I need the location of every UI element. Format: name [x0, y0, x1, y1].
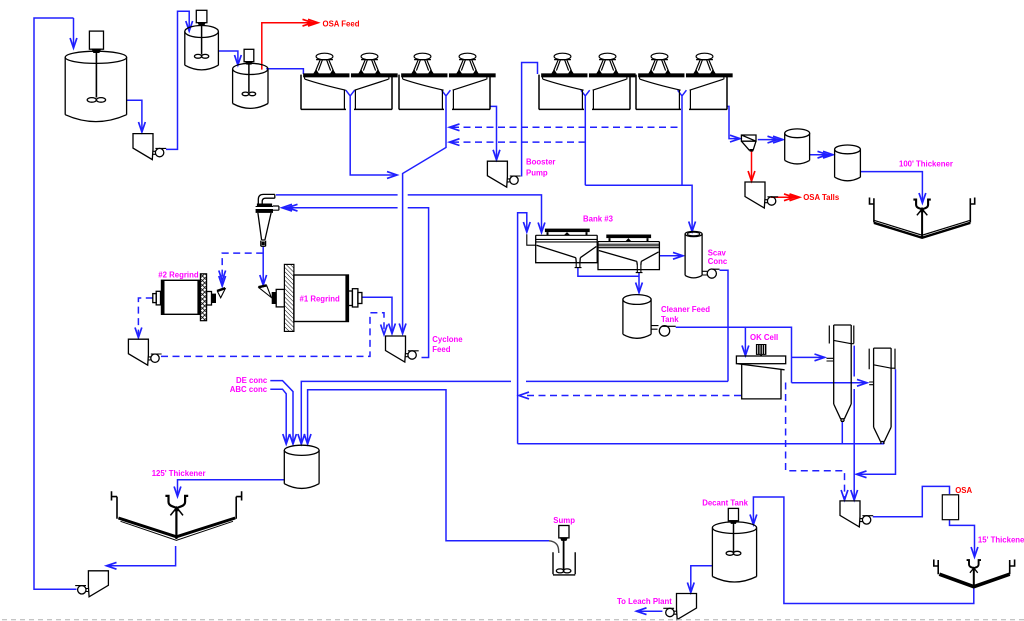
- wire: OK cell conc / column 1 overflow line (gaps at crossings): [853, 346, 855, 500]
- wire: scav conc line to 125' thickener feed tank (gap at crossing): [301, 381, 728, 444]
- flotation column 1: [827, 325, 854, 421]
- sump: [549, 526, 575, 575]
- sampler (OSA cut): [741, 135, 756, 152]
- wire: pair 2 tails to booster pump: [490, 106, 497, 159]
- wire: column 2 overflow to final pump: [857, 369, 896, 474]
- wire: pair 4 tails to sampler: [727, 106, 740, 138]
- svg-text:15' Thickener: 15' Thickener: [978, 536, 1024, 545]
- rougher pair 2: [399, 53, 495, 109]
- wire: sump line up and into feed tank: [308, 390, 549, 541]
- wire: cyclone underflow to #1 regrind scoop: [262, 246, 264, 285]
- #1 regrind mill: [258, 264, 362, 331]
- wire red: OSA tails line: [771, 196, 798, 198]
- wire dashed: middlings recycle to rougher line (lower): [452, 141, 585, 143]
- Bank #3 cell A: [527, 229, 597, 268]
- wire: column underflow header: [518, 441, 884, 444]
- page edge dashed line: [2, 619, 1024, 621]
- #2 regrind mill: [153, 274, 225, 321]
- wire: DE conc line into feed tank: [270, 381, 293, 444]
- wire: pump P1 to tank 2: [166, 11, 189, 149]
- svg-text:To Leach Plant: To Leach Plant: [617, 597, 672, 606]
- head tank T1 (agitated): [65, 31, 126, 122]
- svg-text:OSA Feed: OSA Feed: [323, 19, 360, 28]
- OSA analyser box: [942, 495, 958, 520]
- wire red: sampler reject down to pump: [751, 152, 753, 181]
- wire: OSA analyser to 15' thickener: [950, 520, 975, 557]
- svg-text:OK Cell: OK Cell: [750, 333, 778, 342]
- wire: booster pump discharge to pair 3: [522, 63, 538, 177]
- wire: cyclone overflow to Bank #3 (gap at crossing): [276, 195, 542, 233]
- wire: ABC conc line into feed tank: [270, 389, 286, 444]
- wire: Bank #3 tails to scav column: [659, 255, 683, 257]
- wire: 125' thickener underflow to pump: [107, 546, 176, 566]
- cyclone feed pump: [386, 336, 419, 362]
- wire red: OSA feed sample line: [262, 23, 316, 70]
- rougher pair 4: [636, 53, 732, 109]
- wire: cyclone feed pump discharge to cyclone: [282, 208, 429, 358]
- Bank #3 cell B: [598, 235, 659, 273]
- wire: head tank feed arrow: [73, 18, 75, 48]
- wire: 15' thickener UF to decant tank: [753, 497, 973, 604]
- svg-text:Booster: Booster: [526, 158, 555, 167]
- svg-text:DE conc: DE conc: [236, 376, 268, 385]
- wire: tank 2 to tank 3: [218, 51, 238, 65]
- cyclone: [256, 194, 279, 246]
- leach pump (mirrored): [663, 594, 696, 620]
- final conc pump: [840, 501, 873, 527]
- 125' UF pump (mirrored): [75, 571, 108, 597]
- wire: drum 2 to 100' thickener: [860, 172, 922, 203]
- wire: #1 regrind discharge to cyclone feed pump: [362, 297, 392, 333]
- wire dashed: pump P3 discharge to cyclone feed pump: [161, 313, 384, 357]
- cleaner feed tank: [623, 295, 676, 339]
- wire: surge drum 1 to drum 2: [810, 154, 833, 156]
- wire: column tails recycle riser to Bank #3: [518, 213, 527, 444]
- wire: cleaner feed pump to OK cell and columns: [676, 327, 867, 383]
- wire: final pump to OSA analyser: [873, 486, 950, 516]
- 125' thickener: [112, 491, 242, 540]
- pump P1: [133, 134, 166, 160]
- svg-text:Feed: Feed: [432, 345, 450, 354]
- wire: pair 4 concentrate V: [678, 90, 687, 185]
- svg-text:#2 Regrind: #2 Regrind: [158, 271, 199, 280]
- wire: column 1 underflow drop: [841, 422, 843, 444]
- svg-text:125' Thickener: 125' Thickener: [152, 469, 206, 478]
- svg-text:100' Thickener: 100' Thickener: [899, 160, 953, 169]
- svg-text:Tank: Tank: [661, 315, 679, 324]
- svg-text:Sump: Sump: [553, 516, 575, 525]
- wire: Bank #3 underflow to cleaner feed tank: [578, 268, 639, 293]
- svg-text:Cyclone: Cyclone: [432, 335, 463, 344]
- svg-text:Conc: Conc: [708, 257, 728, 266]
- svg-text:OSA: OSA: [955, 486, 972, 495]
- rougher pair 1: [301, 53, 397, 109]
- decant tank (agitated): [712, 508, 756, 582]
- wire: decant tank to leach pump: [691, 566, 713, 593]
- 100' thickener: [870, 198, 975, 238]
- wire: pairs 3+4 concentrate to scav column: [585, 185, 692, 231]
- 15' thickener: [934, 560, 1015, 589]
- wire: head tank to pump P1: [127, 100, 142, 132]
- wire: 125' feed tank to thickener: [178, 480, 285, 497]
- wire: pair 2 concentrate V to cyclone feed pump: [403, 90, 451, 333]
- wire dashed: #2 regrind discharge to pump P3: [138, 298, 152, 338]
- wire: sampler to surge drum 1: [758, 139, 783, 141]
- flotation column 2: [869, 348, 895, 444]
- tank T2 (agitated): [185, 10, 219, 70]
- surge drum 1: [785, 129, 810, 164]
- wire: tank 3 to rougher pair 1: [266, 69, 303, 74]
- svg-text:Pump: Pump: [526, 168, 548, 177]
- svg-text:OSA Talls: OSA Talls: [803, 193, 840, 202]
- wire: pair 3 concentrate V: [581, 90, 590, 185]
- svg-text:Bank #3: Bank #3: [583, 215, 614, 224]
- tank T3 (agitated): [233, 49, 268, 108]
- svg-text:#1 Regrind: #1 Regrind: [300, 294, 341, 303]
- booster pump: [487, 161, 520, 187]
- svg-text:Decant Tank: Decant Tank: [702, 499, 748, 508]
- wire dashed: OK cell tails to final pump: [786, 383, 845, 501]
- wire dashed: middlings recycle to rougher line (upper): [452, 126, 682, 128]
- wire: pair 1 concentrate V and downcomer: [346, 90, 397, 175]
- wire: leach pump to leach plant arrow: [637, 610, 663, 612]
- svg-text:ABC conc: ABC conc: [230, 385, 268, 394]
- svg-text:Cleaner Feed: Cleaner Feed: [661, 305, 710, 314]
- scav conc column: [685, 231, 719, 278]
- wire: recycle from 125' UF pump up to head tank: [34, 18, 77, 589]
- svg-text:Scav: Scav: [708, 248, 727, 257]
- wire: scav pump discharge down to 125' feed line: [720, 270, 729, 381]
- pump P3 (#2 regrind discharge): [128, 339, 161, 365]
- 125' thickener feed tank: [284, 445, 319, 488]
- wire dashed: OK cell tails recycle: [526, 395, 741, 397]
- wire dashed: cyclone underflow branch to #2 regrind: [222, 253, 263, 286]
- rougher pair 3: [539, 53, 635, 109]
- OSA tails pump: [745, 182, 778, 208]
- surge drum 2: [835, 145, 861, 181]
- OK cell: [736, 344, 785, 399]
